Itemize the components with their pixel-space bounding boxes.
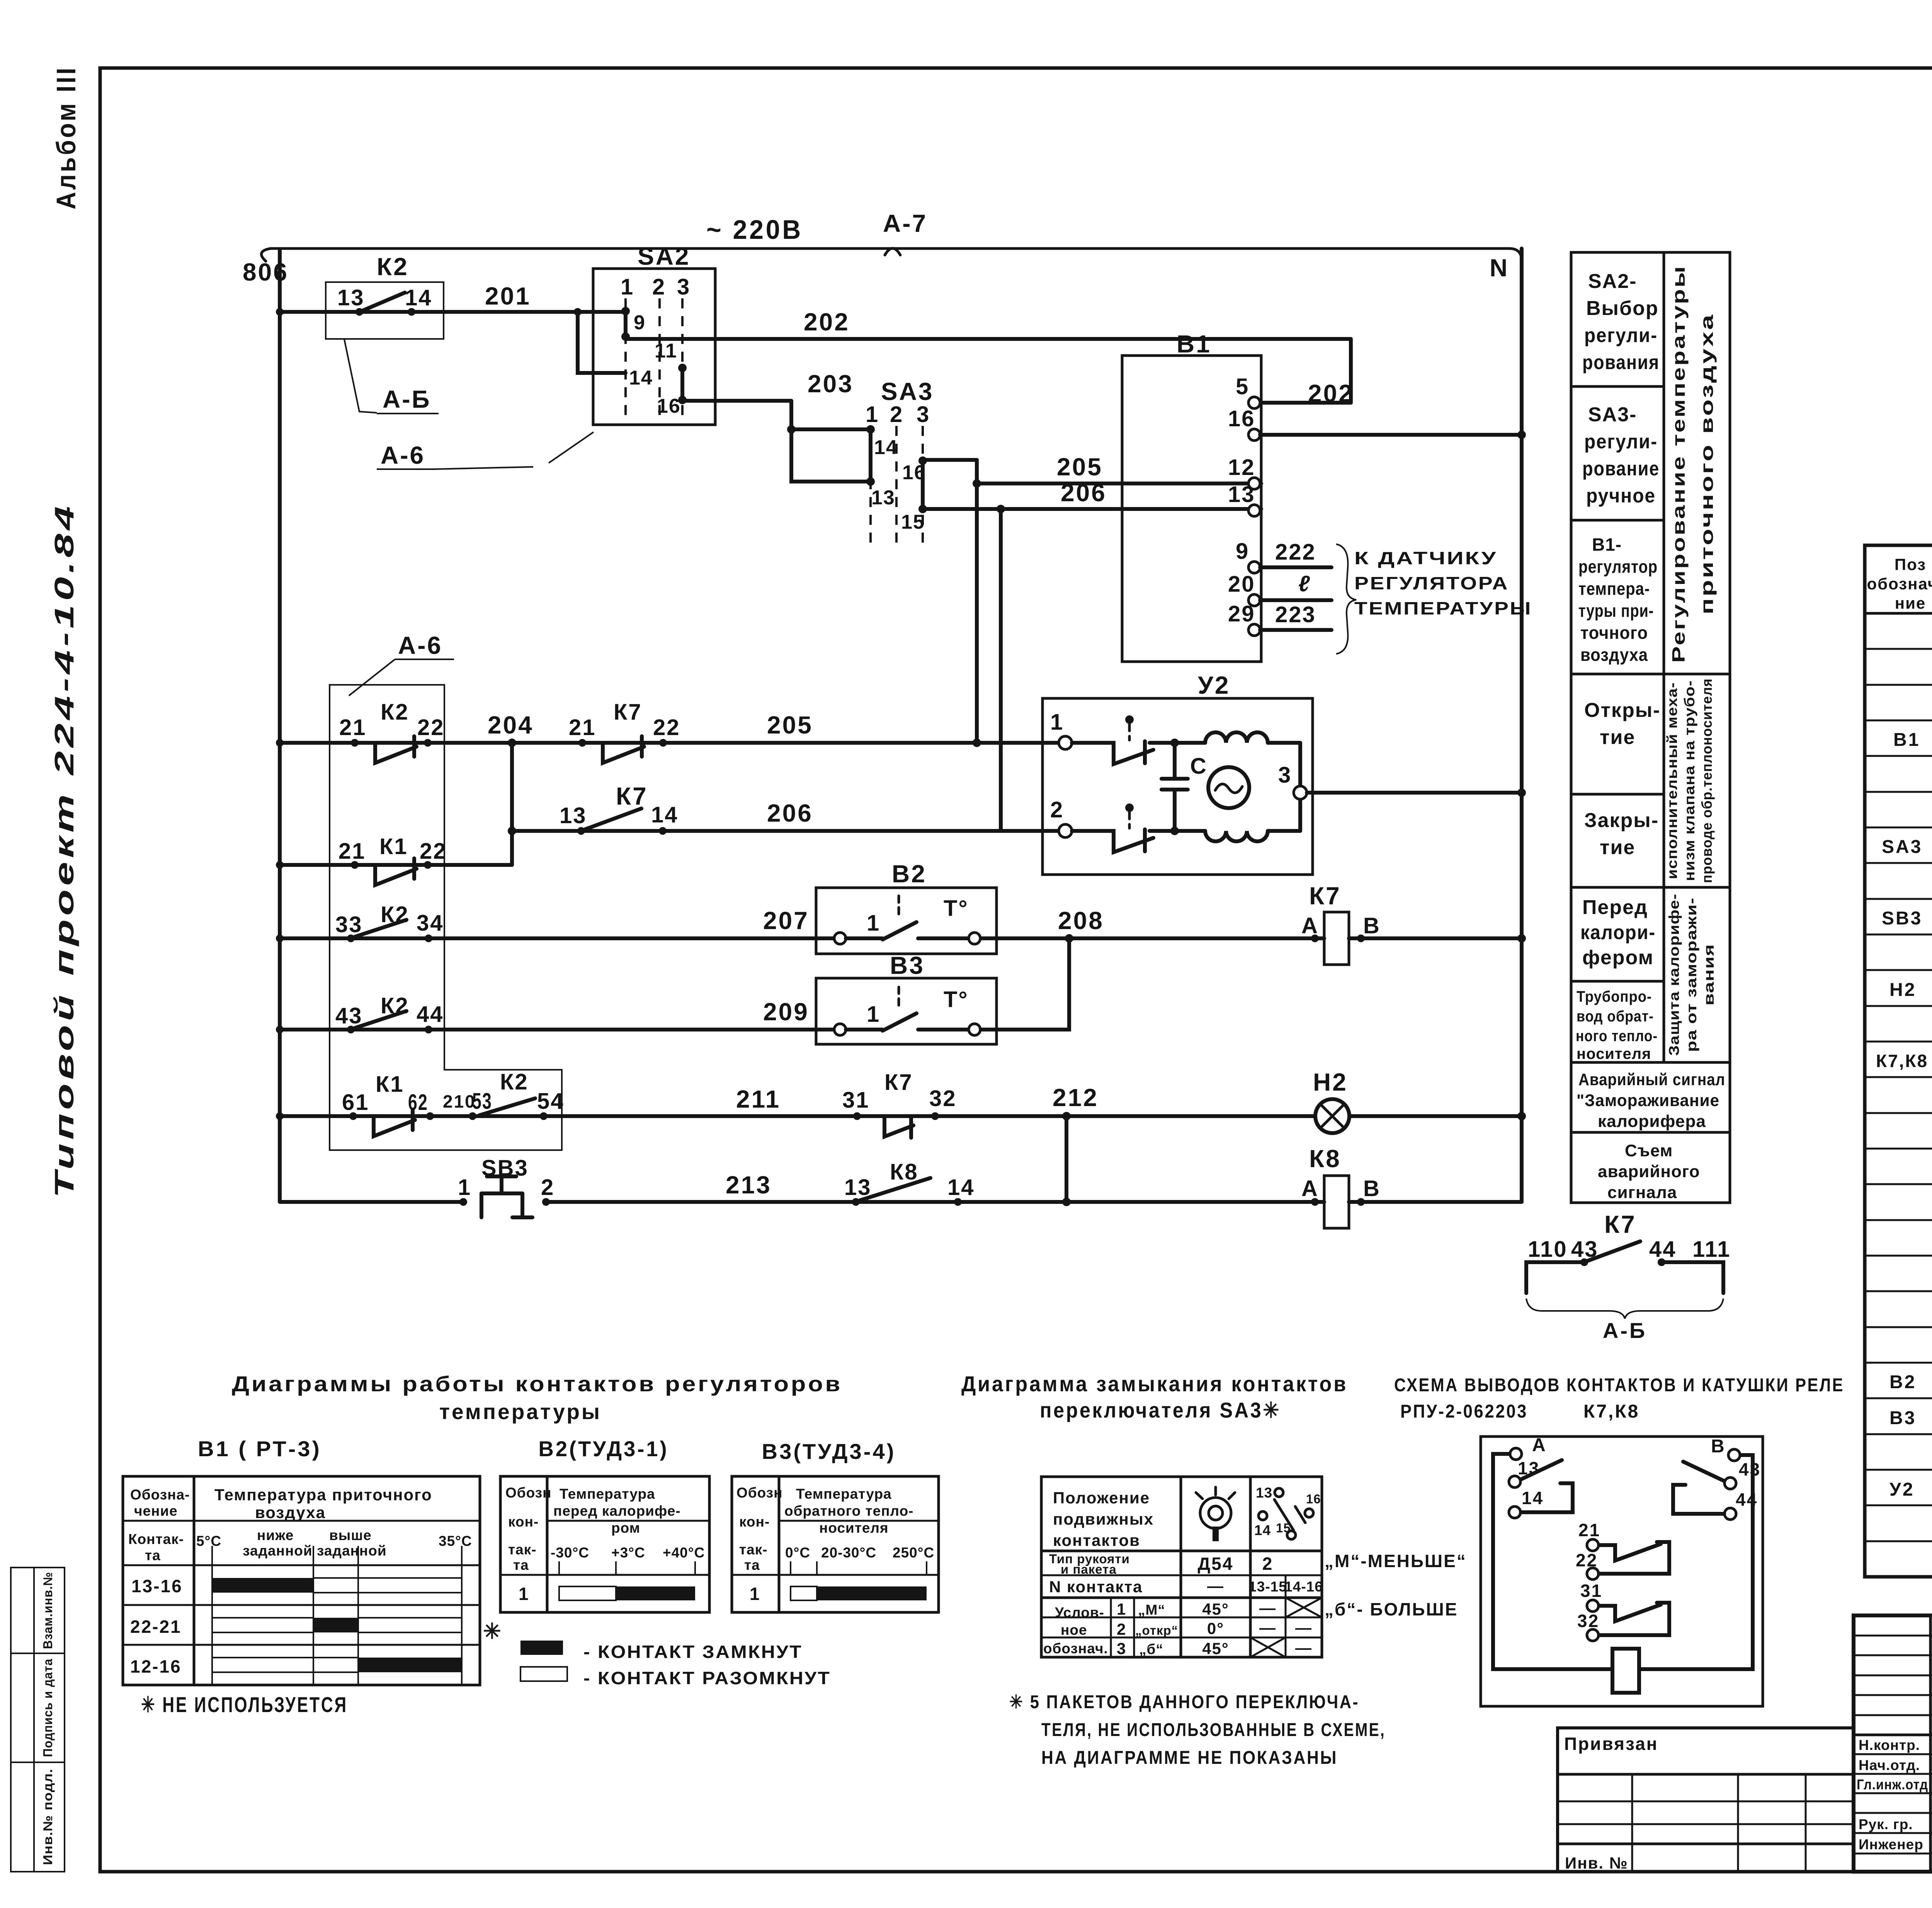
svg-text:Температура приточного: Температура приточного: [214, 1486, 432, 1504]
svg-text:32: 32: [929, 1086, 957, 1111]
svg-text:У2: У2: [1889, 1479, 1915, 1500]
U2 motor symbol: [1208, 767, 1249, 808]
svg-text:заданной: заданной: [243, 1543, 313, 1559]
svg-text:9: 9: [634, 311, 646, 334]
wire 222: [1260, 540, 1332, 567]
svg-text:Т°: Т°: [944, 987, 969, 1012]
relay contact K1 61-62: [342, 1072, 434, 1136]
wire l: [1260, 571, 1332, 600]
svg-text:15: 15: [901, 511, 925, 533]
svg-text:калори-: калори-: [1580, 921, 1656, 944]
svg-text:44: 44: [1649, 1237, 1677, 1262]
title block grid: [1854, 1615, 1932, 1872]
annotation: opening: [1584, 699, 1660, 749]
legend closed contact: [520, 1641, 803, 1662]
svg-text:тие: тие: [1600, 836, 1635, 859]
svg-text:14: 14: [651, 802, 679, 827]
parts row B1: [1893, 730, 1932, 822]
svg-text:„б“: „б“: [1139, 1641, 1163, 1657]
svg-text:1: 1: [750, 1584, 761, 1604]
svg-text:32: 32: [1577, 1611, 1599, 1631]
left margin stamp boxes: [11, 1568, 65, 1872]
svg-text:12-16: 12-16: [130, 1656, 182, 1677]
wire 206 riser: [923, 479, 1261, 831]
svg-text:14: 14: [874, 436, 898, 459]
svg-text:12: 12: [1228, 455, 1255, 480]
wire 223: [1260, 602, 1332, 630]
svg-text:21: 21: [1578, 1520, 1600, 1540]
relay contact K7 13-14: [560, 782, 679, 835]
svg-text:16: 16: [1228, 406, 1255, 431]
svg-text:Подпись и дата: Подпись и дата: [41, 1659, 55, 1757]
svg-text:рования: рования: [1582, 351, 1660, 374]
svg-text:обратного тепло-: обратного тепло-: [784, 1503, 914, 1519]
svg-text:Закры-: Закры-: [1584, 809, 1659, 832]
svg-text:44: 44: [417, 1002, 444, 1027]
svg-text:Д54: Д54: [1198, 1554, 1234, 1574]
svg-text:2: 2: [1262, 1554, 1274, 1574]
node A-7 marker on bus: [883, 209, 927, 255]
svg-text:13: 13: [871, 487, 895, 509]
svg-text:К7: К7: [1309, 882, 1341, 910]
svg-text:заданной: заданной: [317, 1543, 387, 1559]
svg-text:приточного воздуха: приточного воздуха: [1697, 313, 1717, 614]
annotation: before heater: [1580, 896, 1656, 969]
relay contact K2 33-34: [335, 902, 444, 942]
svg-text:- КОНТАКТ РАЗОМКНУТ: - КОНТАКТ РАЗОМКНУТ: [583, 1668, 831, 1688]
wire K1 21-22 row: [276, 743, 516, 869]
title block signature rows: [1857, 1737, 1932, 1852]
parts row H2: [1889, 979, 1932, 1036]
svg-text:В: В: [1363, 1176, 1381, 1201]
diagram table B2: [500, 1476, 709, 1612]
svg-text:А-7: А-7: [883, 209, 927, 237]
relay contact K2 13-14: [326, 253, 444, 339]
svg-text:К1: К1: [379, 834, 408, 859]
svg-text:3: 3: [677, 274, 690, 300]
svg-text:А: А: [1532, 1435, 1547, 1455]
svg-text:5: 5: [1236, 374, 1249, 399]
capacitor C: [1162, 739, 1207, 835]
svg-text:21: 21: [569, 715, 596, 740]
svg-text:0°: 0°: [1207, 1619, 1224, 1637]
svg-text:2: 2: [541, 1175, 554, 1200]
svg-text:Положение: Положение: [1053, 1489, 1150, 1507]
svg-text:темпера-: темпера-: [1578, 579, 1650, 599]
note: not used: [141, 1692, 348, 1717]
svg-text:14: 14: [405, 285, 432, 310]
svg-text:204: 204: [488, 711, 534, 739]
svg-text:16: 16: [1306, 1492, 1321, 1506]
svg-text:Трубопро-: Трубопро-: [1577, 988, 1652, 1005]
svg-text:перед калорифе-: перед калорифе-: [553, 1503, 681, 1519]
svg-text:носителя: носителя: [1577, 1045, 1651, 1062]
svg-text:чение: чение: [134, 1503, 178, 1519]
svg-text:ром: ром: [611, 1520, 640, 1536]
svg-text:14: 14: [629, 367, 653, 389]
svg-text:К7,К8: К7,К8: [1876, 1051, 1928, 1071]
svg-text:К1: К1: [376, 1072, 404, 1097]
svg-text:Альбом III: Альбом III: [51, 66, 81, 209]
relay contact K2 43-44: [335, 993, 444, 1033]
svg-text:воздуха: воздуха: [255, 1503, 326, 1522]
relay contact K1 21-22: [338, 834, 447, 885]
svg-text:35°С: 35°С: [439, 1533, 472, 1549]
svg-text:К7: К7: [614, 700, 642, 725]
svg-text:212: 212: [1053, 1084, 1099, 1111]
svg-text:туры при-: туры при-: [1578, 601, 1654, 621]
svg-text:13: 13: [337, 285, 365, 310]
device A-6 outline box: [330, 685, 562, 1150]
svg-text:аварийного: аварийного: [1598, 1162, 1700, 1181]
svg-text:Обозна-: Обозна-: [130, 1487, 190, 1503]
svg-text:фером: фером: [1582, 946, 1654, 969]
svg-text:13: 13: [560, 803, 587, 828]
node: to temperature sensor note: [1336, 544, 1532, 654]
svg-text:Диаграммы работы контакто: Диаграммы работы контактов регуляторов: [232, 1372, 842, 1396]
svg-text:К ДАТЧИКУ: К ДАТЧИКУ: [1354, 548, 1497, 568]
svg-text:К7,К8: К7,К8: [1583, 1401, 1639, 1422]
svg-text:SA2: SA2: [638, 242, 690, 270]
svg-text:Съем: Съем: [1625, 1141, 1673, 1160]
svg-text:N: N: [1490, 254, 1509, 282]
svg-text:✳ 5 ПАКЕТОВ ДАННОГО ПЕРЕКЛЮЧА-: ✳ 5 ПАКЕТОВ ДАННОГО ПЕРЕКЛЮЧА-: [1009, 1692, 1359, 1712]
svg-text:Нач.отд.: Нач.отд.: [1859, 1757, 1920, 1773]
svg-text:так-: так-: [739, 1542, 768, 1557]
relay coil: [1612, 1649, 1639, 1693]
annotation: closing: [1584, 809, 1659, 859]
svg-text:регулятор: регулятор: [1578, 557, 1658, 577]
svg-text:ручное: ручное: [1586, 485, 1656, 507]
svg-text:ℓ: ℓ: [1298, 571, 1311, 596]
parts row SB3: [1882, 908, 1932, 964]
svg-text:16: 16: [902, 461, 926, 484]
svg-text:34: 34: [417, 911, 444, 936]
relay coil K7: [1301, 882, 1526, 965]
svg-text:21: 21: [338, 839, 366, 864]
svg-text:кон-: кон-: [739, 1514, 770, 1530]
svg-text:А-Б: А-Б: [1603, 1318, 1647, 1343]
svg-text:223: 223: [1275, 602, 1316, 627]
svg-text:1: 1: [867, 1002, 880, 1027]
wire: right bus N: [1520, 248, 1524, 1202]
svg-text:22: 22: [417, 715, 445, 740]
svg-text:Инв. №: Инв. №: [1565, 1854, 1628, 1872]
svg-text:0°С: 0°С: [785, 1545, 810, 1561]
svg-text:+3°С: +3°С: [611, 1545, 645, 1561]
svg-text:та: та: [145, 1547, 161, 1563]
relay contact K7 43-44 aux: [1526, 1210, 1731, 1293]
svg-text:20: 20: [1228, 572, 1255, 597]
svg-text:1: 1: [1117, 1600, 1126, 1618]
svg-text:—: —: [1295, 1639, 1312, 1657]
svg-text:5°С: 5°С: [196, 1533, 221, 1549]
svg-text:В2: В2: [892, 860, 927, 888]
svg-text:~ 220В: ~ 220В: [706, 214, 803, 245]
svg-text:201: 201: [485, 282, 531, 310]
svg-text:1: 1: [867, 911, 880, 936]
annotation: SA3 function: [1582, 403, 1660, 507]
SA3 position table: [1041, 1477, 1323, 1658]
svg-text:14-16: 14-16: [1284, 1579, 1323, 1595]
svg-text:регули-: регули-: [1584, 431, 1658, 453]
svg-text:Услов-: Услов-: [1055, 1605, 1104, 1620]
terminal B: [1728, 1449, 1740, 1461]
svg-text:1: 1: [519, 1584, 530, 1604]
svg-text:33: 33: [335, 912, 363, 937]
svg-text:—: —: [1259, 1599, 1276, 1617]
svg-text:тие: тие: [1600, 726, 1635, 749]
wire 207/208 row: [276, 907, 1324, 943]
svg-text:В3: В3: [1889, 1408, 1916, 1428]
svg-text:Инженер: Инженер: [1859, 1837, 1923, 1852]
svg-text:—: —: [1259, 1619, 1276, 1637]
relay contact K7 31-32: [842, 1070, 957, 1138]
svg-text:222: 222: [1275, 540, 1316, 565]
svg-text:111: 111: [1692, 1237, 1731, 1262]
wire 203: [682, 370, 871, 482]
svg-text:точного: точного: [1580, 623, 1648, 643]
svg-text:ниже: ниже: [257, 1527, 294, 1543]
svg-text:213: 213: [726, 1171, 772, 1199]
svg-text:21: 21: [339, 715, 367, 740]
svg-text:В1 ( РТ-3): В1 ( РТ-3): [198, 1437, 321, 1461]
U2 lower limit contact: [1072, 803, 1175, 852]
svg-text:Аварийный сигнал: Аварийный сигнал: [1578, 1070, 1725, 1089]
svg-text:210: 210: [443, 1091, 476, 1111]
svg-text:110: 110: [1528, 1237, 1568, 1262]
parts row K7 K8: [1876, 1048, 1932, 1071]
svg-text:SA2-: SA2-: [1588, 270, 1637, 293]
svg-text:✳: ✳: [483, 1619, 503, 1643]
legend open contact: [520, 1667, 831, 1688]
parts row SA3: [1882, 837, 1932, 893]
svg-text:11: 11: [655, 340, 677, 362]
svg-text:Перед: Перед: [1582, 896, 1648, 919]
annotation: freeze alarm: [1577, 1070, 1725, 1131]
svg-text:45°: 45°: [1202, 1600, 1229, 1618]
wire 206 row: [512, 743, 1065, 831]
svg-text:3: 3: [917, 402, 930, 427]
diagram table B1: [123, 1476, 503, 1685]
svg-text:К7: К7: [1604, 1210, 1636, 1238]
svg-text:температуры: температуры: [439, 1399, 602, 1424]
svg-text:А: А: [1301, 913, 1319, 938]
privyazan block: [1558, 1728, 1854, 1872]
svg-text:13: 13: [1228, 482, 1255, 507]
svg-text:НА ДИАГРАММЕ НЕ ПОКАЗАНЫ: НА ДИАГРАММЕ НЕ ПОКАЗАНЫ: [1041, 1748, 1338, 1768]
svg-text:регули-: регули-: [1584, 324, 1658, 347]
svg-text:Гл.инж.отд: Гл.инж.отд: [1857, 1777, 1928, 1792]
svg-text:рование: рование: [1582, 458, 1660, 480]
svg-text:Контак-: Контак-: [128, 1531, 184, 1547]
svg-text:так-: так-: [508, 1542, 537, 1557]
svg-text:ного тепло-: ного тепло-: [1576, 1028, 1658, 1045]
svg-text:А-6: А-6: [398, 631, 442, 659]
wire 213 row: [280, 1116, 1324, 1206]
bar row 12-16: [212, 1658, 358, 1672]
svg-text:та: та: [513, 1557, 529, 1573]
annotation vertical: actuator of valve: [1664, 678, 1715, 883]
svg-text:К7: К7: [616, 782, 648, 810]
svg-text:-30°С: -30°С: [551, 1545, 589, 1561]
svg-text:„б“- БОЛЬШЕ: „б“- БОЛЬШЕ: [1325, 1599, 1458, 1619]
svg-text:29: 29: [1228, 601, 1255, 626]
svg-text:Поз: Поз: [1895, 555, 1926, 574]
svg-text:211: 211: [736, 1085, 781, 1113]
svg-text:—: —: [1207, 1577, 1224, 1595]
svg-text:SВ3: SВ3: [1882, 908, 1922, 929]
svg-text:20-30°С: 20-30°С: [821, 1545, 876, 1561]
relay coil K8: [1301, 1145, 1522, 1228]
svg-text:А: А: [1301, 1176, 1319, 1201]
svg-text:Привязан: Привязан: [1564, 1734, 1658, 1754]
bar row 13-16: [212, 1578, 313, 1593]
svg-text:1: 1: [458, 1175, 471, 1200]
svg-text:Т°: Т°: [944, 896, 969, 921]
svg-text:ра от заморажи-: ра от заморажи-: [1684, 897, 1699, 1052]
svg-text:У2: У2: [1198, 671, 1230, 699]
svg-text:СХЕМА ВЫВОДОВ КОНТАКТОВ И К: СХЕМА ВЫВОДОВ КОНТАКТОВ И КАТУШКИ РЕЛЕ: [1394, 1375, 1844, 1396]
svg-text:Обозн: Обозн: [736, 1485, 783, 1501]
svg-text:В3: В3: [890, 951, 925, 979]
node N label: [1490, 254, 1509, 282]
pack switch SA2: [593, 242, 715, 425]
relay contact K2 53-54: [469, 1069, 565, 1120]
svg-text:202: 202: [804, 308, 850, 336]
svg-text:205: 205: [767, 711, 813, 739]
SA3 knob icon: [1200, 1498, 1231, 1528]
svg-text:31: 31: [842, 1088, 870, 1113]
svg-text:53: 53: [472, 1089, 492, 1114]
svg-text:В1: В1: [1177, 330, 1211, 358]
svg-text:выше: выше: [329, 1527, 372, 1543]
svg-text:исполнительный меха-: исполнительный меха-: [1664, 682, 1680, 879]
svg-text:обознач.: обознач.: [1043, 1641, 1108, 1656]
wire 210/211/212 row: [276, 1084, 1315, 1120]
svg-text:ние: ние: [1895, 594, 1926, 612]
svg-text:14: 14: [947, 1175, 975, 1200]
wire 204/205 row: [276, 711, 1065, 747]
wire 202: [626, 308, 1354, 407]
svg-text:2: 2: [1050, 797, 1064, 822]
svg-text:Типовой проект 224-4-10.84: Типовой проект 224-4-10.84: [49, 502, 79, 1198]
svg-text:обозначе-: обозначе-: [1867, 575, 1932, 593]
svg-text:208: 208: [1058, 907, 1104, 934]
svg-text:воздуха: воздуха: [1580, 645, 1648, 665]
svg-text:„М“: „М“: [1138, 1602, 1165, 1618]
terminal A: [1510, 1448, 1522, 1460]
svg-text:проводе обр.теплоносителя: проводе обр.теплоносителя: [1699, 678, 1715, 883]
U2 motor winding bottom: [1175, 831, 1300, 841]
parts table grid: [1865, 545, 1932, 1577]
thermostat B3: [816, 951, 997, 1044]
svg-text:Откры-: Откры-: [1584, 699, 1660, 722]
svg-text:Обозн: Обозн: [505, 1485, 552, 1501]
push button SB3: [458, 1156, 554, 1217]
svg-text:—: —: [1295, 1619, 1312, 1637]
annotation vertical: temperature regulation: [1668, 265, 1717, 663]
svg-text:Н2: Н2: [1889, 980, 1916, 1000]
svg-text:SA3-: SA3-: [1588, 403, 1637, 426]
SA3 footnote: [1009, 1692, 1386, 1768]
svg-text:та: та: [744, 1557, 760, 1573]
U2 upper limit contact: [1072, 715, 1175, 764]
svg-text:К2: К2: [500, 1069, 529, 1094]
pack switch SA3: [866, 378, 934, 545]
svg-text:3: 3: [1117, 1639, 1126, 1658]
svg-text:1: 1: [866, 402, 879, 427]
svg-text:N контакта: N контакта: [1049, 1578, 1143, 1596]
svg-text:206: 206: [767, 799, 813, 827]
parts rows B2 B3: [1889, 1265, 1932, 1428]
node A-6 callout to box: [349, 631, 454, 696]
svg-text:Регулирование температуры: Регулирование температуры: [1668, 265, 1689, 663]
wire B3 riser to 208: [981, 938, 1069, 1030]
parts table header: [1867, 555, 1932, 612]
svg-text:контактов: контактов: [1053, 1531, 1140, 1549]
relay contact K2 21-22: [339, 700, 445, 763]
wire: branch into SA2 lower entry: [578, 312, 626, 373]
relay contact K8 13-14: [844, 1159, 975, 1206]
svg-text:22-21: 22-21: [130, 1617, 182, 1637]
svg-text:К7: К7: [884, 1070, 913, 1095]
svg-text:31: 31: [1580, 1581, 1602, 1601]
svg-text:SА3: SА3: [1882, 837, 1922, 857]
svg-text:Н2: Н2: [1313, 1068, 1348, 1096]
node A-Б callout: [344, 339, 439, 414]
svg-text:носителя: носителя: [819, 1520, 889, 1536]
svg-text:1: 1: [621, 274, 634, 300]
svg-text:61: 61: [342, 1090, 369, 1115]
wire U2.3 to N: [1307, 788, 1526, 797]
svg-text:2: 2: [1117, 1620, 1126, 1638]
svg-text:44: 44: [1736, 1489, 1758, 1510]
wire 201: [276, 282, 593, 316]
relay RPU box: [1481, 1435, 1763, 1706]
svg-text:Температура: Температура: [796, 1486, 892, 1502]
svg-text:ное: ное: [1061, 1622, 1087, 1638]
actuator U2: [1043, 671, 1313, 875]
svg-text:3: 3: [1278, 763, 1292, 788]
annotation: B1 function: [1578, 534, 1658, 665]
svg-text:14: 14: [1254, 1522, 1271, 1538]
svg-text:16: 16: [657, 395, 681, 417]
svg-text:А-Б: А-Б: [383, 385, 431, 413]
svg-text:сигнала: сигнала: [1607, 1183, 1677, 1202]
svg-text:Н.контр.: Н.контр.: [1859, 1737, 1920, 1753]
svg-text:Инв.№ подл.: Инв.№ подл.: [41, 1768, 55, 1865]
wire: left bus 806: [243, 250, 289, 1202]
svg-text:Температура: Температура: [560, 1486, 655, 1502]
net ~220V top bus: [261, 214, 1522, 261]
svg-text:13-15: 13-15: [1248, 1579, 1287, 1595]
svg-text:и пакета: и пакета: [1061, 1562, 1117, 1576]
svg-text:В: В: [1363, 913, 1381, 938]
svg-text:„М“-МЕНЬШЕ“: „М“-МЕНЬШЕ“: [1325, 1551, 1467, 1571]
bar row 22-21: [212, 1618, 313, 1632]
svg-text:К2: К2: [377, 253, 409, 281]
svg-text:"Замораживание: "Замораживание: [1577, 1091, 1719, 1110]
signal lamp H2: [1313, 1068, 1526, 1133]
svg-text:„откр“: „откр“: [1135, 1623, 1178, 1637]
svg-text:Защита калорифе-: Защита калорифе-: [1666, 894, 1682, 1056]
svg-text:45°: 45°: [1202, 1639, 1229, 1658]
svg-text:13: 13: [1256, 1485, 1272, 1501]
relay contact K7 21-22: [569, 700, 680, 763]
annotation: return pipe: [1576, 988, 1658, 1062]
U2 pin 3: [1278, 743, 1307, 831]
